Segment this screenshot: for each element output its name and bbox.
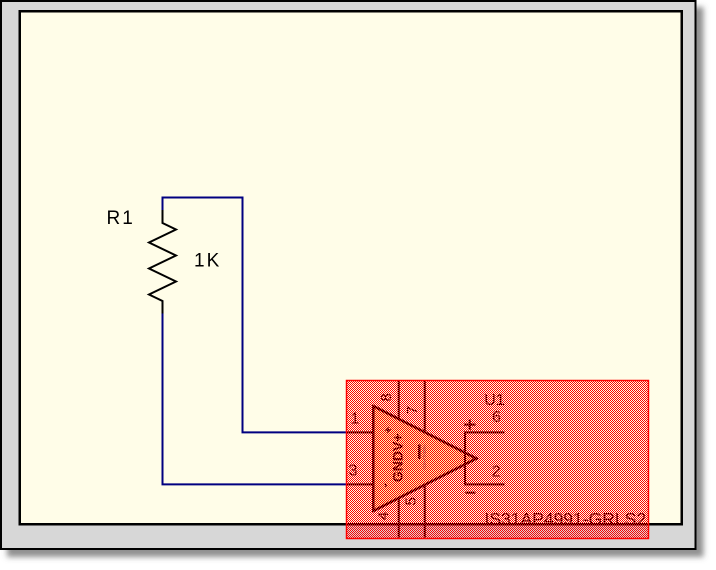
selection highlight overlay <box>347 381 649 539</box>
wire: R1 bottom to pin 3 <box>163 313 347 484</box>
op-amp U1 triangle body <box>373 406 476 511</box>
internal bar near output <box>418 445 421 460</box>
internal plus mark <box>385 427 391 433</box>
svg-text:1K: 1K <box>194 251 221 272</box>
pin 7/5 vertical line <box>424 381 426 538</box>
op-amp U1 pin 3 <box>347 483 374 485</box>
pin 8/4 vertical line <box>398 381 400 538</box>
internal tick mark <box>385 484 386 488</box>
plus mark above pin 6 <box>464 420 476 430</box>
resistor R1 <box>149 210 176 314</box>
output bracket pins 6/2 <box>465 432 505 484</box>
minus mark below pin 2 <box>465 492 475 494</box>
svg-text:R1: R1 <box>107 208 135 229</box>
op-amp U1 pin 1 <box>347 431 374 433</box>
wire: R1 top to pin 1 <box>163 198 347 433</box>
